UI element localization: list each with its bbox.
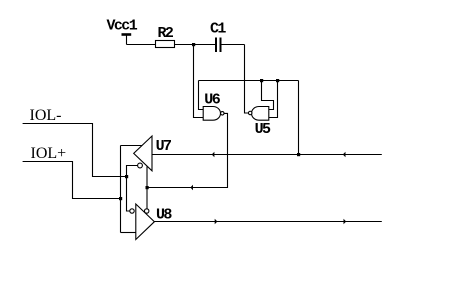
wire R2 to C1 [175,44,216,46]
power symbol Vcc1 [122,33,132,36]
junction node main line [297,153,300,156]
wire feedback bus [199,80,299,82]
wire IOL+ [23,162,121,199]
NAND gate U6 [203,107,220,121]
wire down from C1 to U5 output [245,45,249,114]
junction node bus left [260,79,263,82]
junction node after R2 [192,43,195,46]
wire U7 bubble to U8 bubble [127,166,138,212]
arrow right on U8 output 1 [215,219,218,224]
buffer U8 [136,204,155,240]
svg-text:IOL+: IOL+ [31,145,67,162]
arrow right on U8 output 2 [344,219,347,224]
svg-text:IOL-: IOL- [30,107,62,124]
wire IOL+ vertical branch [120,146,122,233]
svg-text:Vcc1: Vcc1 [107,18,138,35]
svg-text:C1: C1 [210,21,226,38]
arrow left on main line 2 [343,152,346,157]
wire C1 right to corner [222,44,245,46]
junction node enable [146,186,149,189]
svg-text:R2: R2 [158,25,174,42]
NAND gate U5 [252,107,269,121]
svg-text:U7: U7 [156,138,171,155]
svg-text:U6: U6 [204,92,220,109]
junction node IOL+ [119,197,122,200]
arrow left on enable wire [190,185,193,190]
buffer U7 [134,136,152,171]
svg-text:U5: U5 [255,121,271,138]
wire bus right end down to output line [298,81,300,155]
capacitor C1 [215,38,217,53]
resistor R2 [156,41,175,48]
junction node bus right [276,79,279,82]
arrow left on main line 1 [212,152,215,157]
wire to U7 input side [121,145,143,147]
wire to U8 input [121,232,136,234]
wire bus to U6 upper input [199,81,204,110]
wire main line top [152,154,382,156]
wire bus to U5 upper input [262,81,274,110]
wire main line bottom (U8 output) [154,221,381,223]
svg-text:U8: U8 [156,206,172,223]
wire IOL- [23,124,127,177]
wire Vcc1 to R2 [127,44,156,46]
wire bus to U5 lower input [269,81,278,118]
wire R2/C1 node down to U6 lower input [194,45,204,118]
wire U6 output down and left [147,113,228,187]
junction node IOL- [125,175,128,178]
wire enable vertical U7 to U8 [146,166,148,209]
